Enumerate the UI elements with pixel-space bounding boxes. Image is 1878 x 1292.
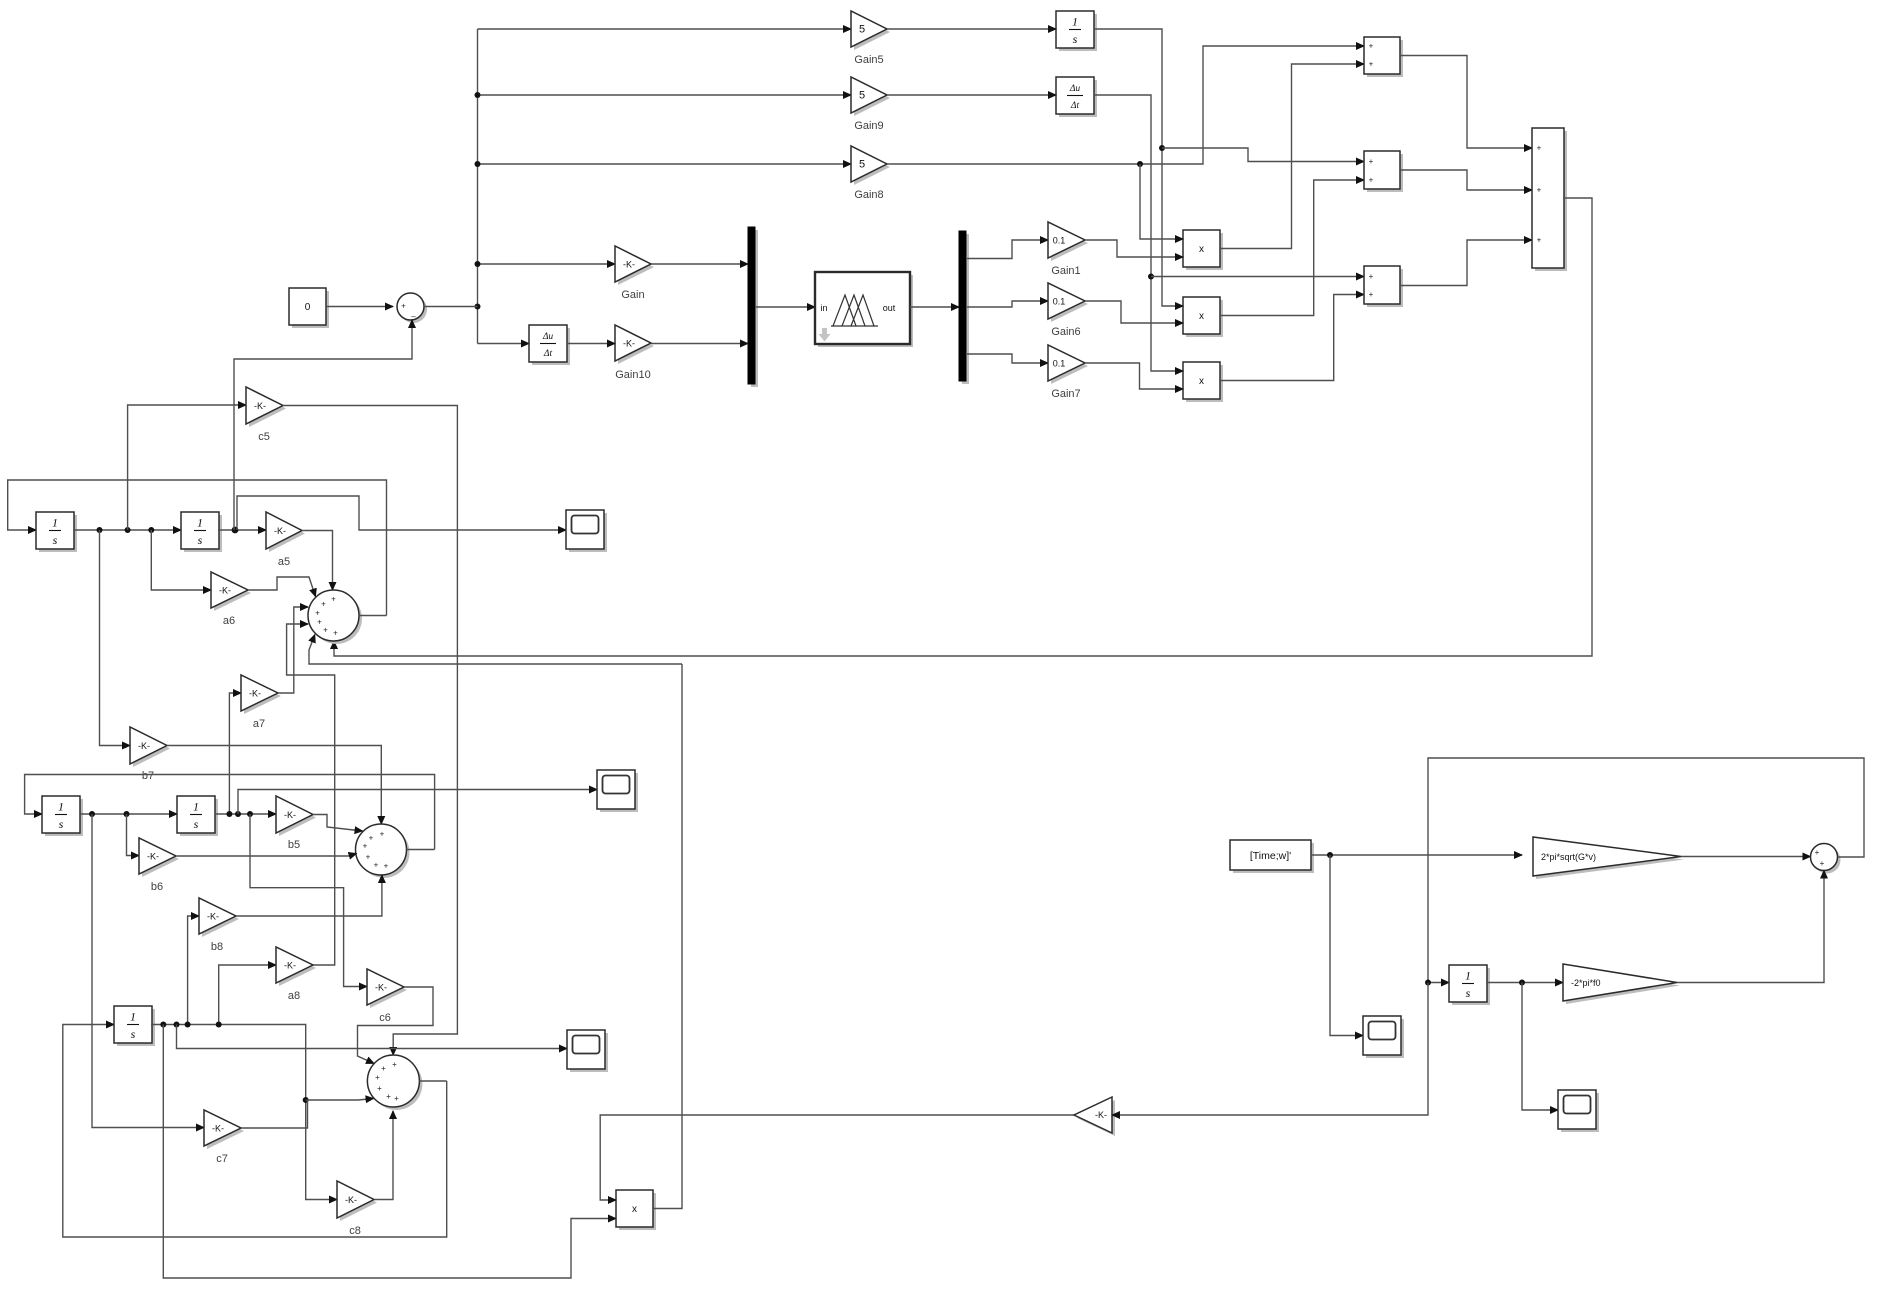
svg-text:+: + [1820, 859, 1825, 868]
gain Gain7 [1048, 345, 1088, 384]
svg-text:-K-: -K- [249, 689, 261, 699]
svg-text:+: + [1369, 272, 1374, 281]
node e-b8 [185, 1022, 191, 1028]
svg-text:+: + [1815, 848, 1820, 857]
wire product4 to sum-a [309, 635, 682, 664]
svg-text:+: + [1537, 236, 1542, 245]
derivative du/dt (pre Gain10) [529, 325, 570, 365]
constant block 0 [289, 288, 329, 328]
gain a6 [211, 572, 251, 611]
svg-text:+: + [331, 595, 336, 604]
svg-text:5: 5 [859, 159, 865, 171]
wire a8 to sum-a [287, 624, 335, 965]
wire c5 input riser [128, 405, 246, 530]
wire product2 to sum2 [1220, 180, 1364, 316]
node intB-out [232, 527, 239, 534]
svg-text:0.1: 0.1 [1053, 236, 1066, 246]
node a-b7 [97, 527, 103, 533]
svg-text:s: s [53, 533, 58, 547]
product block 1 [1183, 230, 1223, 270]
svg-text:+: + [392, 1060, 397, 1069]
svg-text:Gain8: Gain8 [854, 189, 883, 201]
svg-text:c6: c6 [379, 1012, 391, 1024]
gain Gain9 [851, 77, 890, 116]
gain c7 [204, 1110, 244, 1149]
gain 2*pi*sqrt(G*v) [1533, 837, 1684, 879]
wire e to product4-in2 [163, 1025, 616, 1279]
wire b-loop feedback [25, 775, 435, 850]
wire const0 to sum [326, 306, 393, 308]
gain Gain6 [1048, 283, 1088, 322]
wire intF to scope5 [1522, 983, 1558, 1111]
sum circle 5 [1811, 844, 1841, 874]
node gain8-branch [1137, 161, 1143, 167]
wire to Gain [478, 263, 616, 265]
wire sum4 output [424, 306, 478, 308]
wire to Gain8 [478, 163, 852, 165]
wire a-loop feedback [8, 480, 387, 616]
gain b7 [130, 727, 170, 767]
scope 1 [566, 510, 607, 552]
wire b5 to sum-b [313, 815, 363, 832]
node error-gain8 [475, 161, 481, 167]
svg-text:Gain: Gain [621, 289, 644, 301]
svg-text:-K-: -K- [212, 1124, 224, 1134]
wire e to sum-c sw [306, 1099, 374, 1101]
wire a5 to sum-a top [302, 531, 333, 591]
wire sum-b output [407, 849, 435, 851]
svg-text:out: out [883, 303, 896, 313]
svg-text:x: x [632, 1204, 637, 1215]
scope 5 [1558, 1090, 1599, 1132]
wire a6 to sum-a [248, 577, 316, 597]
node error-gain [475, 261, 481, 267]
svg-text:+: + [1537, 144, 1542, 153]
svg-text:0: 0 [305, 302, 311, 313]
fuzzy logic controller block [815, 272, 913, 347]
wire b7 to sum-b top [167, 746, 381, 825]
wire dudt to sum3 [1151, 276, 1364, 278]
svg-text:-K-: -K- [274, 526, 286, 536]
svg-text:+: + [377, 1084, 382, 1093]
wire intA to intB [74, 529, 181, 531]
svg-text:+: + [315, 609, 320, 618]
wire a7 riser [229, 693, 241, 814]
svg-text:x: x [1199, 311, 1204, 322]
gain Gain1 [1048, 222, 1088, 261]
svg-text:+: + [317, 618, 322, 627]
gain b8 [199, 898, 239, 937]
wire derivative2 to Gain10 [567, 343, 615, 345]
wire to Gain9 [478, 94, 852, 96]
integrator 1/s (top) [1056, 11, 1097, 51]
gain b6 [139, 838, 179, 877]
svg-text:+: + [1369, 290, 1374, 299]
svg-text:s: s [59, 817, 64, 831]
svg-text:-K-: -K- [284, 961, 296, 971]
wire gain8-branch to product1 [1140, 164, 1183, 239]
svg-text:a8: a8 [288, 990, 300, 1002]
svg-text:b8: b8 [211, 941, 223, 953]
svg-text:-K-: -K- [207, 912, 219, 922]
wire Gain10 to mux [651, 343, 748, 345]
svg-text:-K-: -K- [623, 260, 635, 270]
wire intB to a5 [218, 529, 266, 531]
wire intE to scope3 [177, 1025, 568, 1049]
gain -K- (feedback) [1074, 1097, 1115, 1136]
svg-text:-K-: -K- [284, 810, 296, 820]
svg-text:c8: c8 [349, 1225, 361, 1237]
wire sum1 to adder [1400, 56, 1532, 149]
svg-text:Gain5: Gain5 [854, 54, 883, 66]
scope 3 [567, 1030, 608, 1072]
gain a8 [276, 947, 316, 986]
svg-text:Δt: Δt [1070, 101, 1080, 111]
svg-text:+: + [1369, 42, 1374, 51]
wire K to product4-in1 [600, 1115, 1074, 1200]
gain Gain8 [851, 146, 890, 185]
wire adder feedback to sum-a [334, 198, 1592, 656]
wire a6 input riser [151, 530, 211, 590]
svg-text:+: + [1537, 186, 1542, 195]
sum circle A [308, 590, 362, 644]
wire Gain to mux [651, 263, 748, 265]
wire f0-gain to sum5 bottom [1677, 871, 1824, 983]
svg-text:b6: b6 [151, 881, 163, 893]
product block 3 [1183, 362, 1223, 402]
gain Gain [615, 246, 654, 285]
sum circle C [367, 1055, 422, 1110]
gain c6 [367, 969, 407, 1008]
integrator F (1/s) [1449, 965, 1490, 1005]
svg-text:5: 5 [859, 90, 865, 102]
wire sum3 to adder [1400, 240, 1532, 286]
svg-text:+: + [333, 629, 338, 638]
svg-text:+: + [363, 842, 368, 851]
wire intD to scope2 [238, 790, 597, 815]
wire b8 riser [188, 916, 199, 1025]
svg-text:-K-: -K- [1095, 1110, 1107, 1120]
node error-sum-out [475, 304, 481, 310]
svg-text:-K-: -K- [623, 339, 635, 349]
node error-gain9 [475, 92, 481, 98]
node b-a7 [226, 811, 232, 817]
product block 4 [616, 1190, 656, 1230]
svg-text:b5: b5 [288, 839, 300, 851]
svg-text:1: 1 [58, 800, 64, 814]
svg-text:c7: c7 [216, 1153, 228, 1165]
node a-c5 [125, 527, 131, 533]
svg-text:a7: a7 [253, 718, 265, 730]
wire mux to fuzzy [755, 306, 815, 308]
svg-text:+: + [394, 1094, 399, 1103]
svg-text:2*pi*sqrt(G*v): 2*pi*sqrt(G*v) [1541, 852, 1596, 862]
integrator C (1/s) [42, 796, 83, 836]
svg-text:a6: a6 [223, 615, 235, 627]
wire intB to scope1 [237, 496, 566, 530]
wire intD to c6 [250, 814, 367, 987]
svg-text:+: + [323, 626, 328, 635]
node f-out-branch [1519, 980, 1525, 986]
node b-c6 [247, 811, 253, 817]
sum block 2 [1364, 151, 1403, 192]
wire Gain8 to sum1 [887, 46, 1364, 164]
wire demux to Gain7 [967, 354, 1048, 363]
wire product3 to sum3 [1220, 295, 1364, 381]
svg-text:+: + [381, 1064, 386, 1073]
svg-text:x: x [1199, 244, 1204, 255]
gain Gain5 [851, 11, 890, 50]
svg-text:+: + [380, 830, 385, 839]
svg-text:+: + [366, 853, 371, 862]
svg-text:+: + [1369, 60, 1374, 69]
wire demux to Gain6 [967, 301, 1048, 307]
product block 2 [1183, 297, 1223, 337]
sum block 1 [1364, 37, 1403, 77]
wire intD to b5 [215, 813, 276, 815]
wire source to sqrt-gain [1311, 854, 1522, 856]
svg-text:-K-: -K- [138, 741, 150, 751]
svg-text:Gain1: Gain1 [1051, 265, 1080, 277]
sum block tall (3-input adder) [1532, 128, 1567, 271]
wire product1 to sum1 [1220, 64, 1364, 249]
svg-text:Gain6: Gain6 [1051, 326, 1080, 338]
integrator A (1/s) [36, 512, 77, 552]
wire b8 to sum-b bottom [236, 875, 382, 916]
svg-text:s: s [1073, 32, 1078, 46]
svg-text:+: + [384, 862, 389, 871]
wire c-loop feedback [63, 1025, 447, 1238]
svg-text:-K-: -K- [254, 401, 266, 411]
demux block [959, 231, 969, 384]
node b-scope [235, 811, 241, 817]
wire a7 to sum-a [278, 607, 308, 693]
node e-scope3 [174, 1022, 180, 1028]
gain -2*pi*f0 [1563, 964, 1680, 1004]
svg-text:Gain10: Gain10 [615, 369, 650, 381]
svg-text:+: + [386, 1092, 391, 1101]
integrator D (1/s) [177, 796, 218, 836]
sum block 3 [1364, 266, 1403, 307]
wire intC to intD [80, 813, 177, 815]
svg-text:-2*pi*f0: -2*pi*f0 [1571, 978, 1601, 988]
wire Gain1 to product1 [1085, 240, 1183, 257]
wire intF to f0-gain [1486, 982, 1563, 984]
svg-text:_: _ [410, 309, 416, 318]
svg-text:1: 1 [52, 516, 58, 530]
wire sum5 loop to integrator F [1428, 758, 1864, 983]
svg-text:0.1: 0.1 [1053, 297, 1066, 307]
node b-c7 [89, 811, 95, 817]
node int-top-branch [1159, 145, 1165, 151]
wire c6 to sum-c [358, 987, 434, 1064]
wire c5 output to c-sum [283, 406, 457, 1056]
svg-text:+: + [374, 861, 379, 870]
wire to Gain5 [478, 28, 852, 30]
svg-text:-K-: -K- [345, 1195, 357, 1205]
svg-text:s: s [1466, 986, 1471, 1000]
wire Gain9 to derivative [887, 94, 1056, 96]
node source-branch [1327, 852, 1333, 858]
svg-text:Gain7: Gain7 [1051, 388, 1080, 400]
svg-text:1: 1 [193, 800, 199, 814]
svg-text:in: in [820, 303, 827, 313]
wire demux to Gain1 [967, 240, 1048, 259]
svg-text:Δu: Δu [1069, 84, 1081, 94]
node f-in-branch [1425, 980, 1431, 986]
integrator B (1/s) [181, 512, 222, 552]
node e-a8 [216, 1022, 222, 1028]
integrator E (1/s) [114, 1006, 155, 1046]
derivative du/dt (top) [1056, 77, 1097, 117]
wire to Derivative2 [478, 343, 530, 345]
svg-text:s: s [131, 1027, 136, 1041]
sum circle B [356, 824, 410, 878]
gain a7 [241, 675, 281, 714]
gain Gain10 [615, 325, 654, 364]
svg-text:5: 5 [859, 24, 865, 36]
source block [Time;w]' [1230, 840, 1314, 873]
scope 4 [1363, 1016, 1404, 1058]
svg-text:Δt: Δt [543, 349, 553, 359]
wire c8 to sum-c bottom [374, 1111, 393, 1200]
svg-text:+: + [375, 1073, 380, 1082]
svg-text:1: 1 [197, 516, 203, 530]
node e-p4 [160, 1022, 166, 1028]
wire b6 to sum-b [176, 854, 357, 857]
svg-text:b7: b7 [142, 770, 154, 782]
svg-text:1: 1 [1072, 15, 1078, 29]
node b-b6 [124, 811, 130, 817]
svg-text:0.1: 0.1 [1053, 359, 1066, 369]
wire source to scope4 [1330, 855, 1363, 1036]
wire b6 riser [127, 814, 140, 856]
svg-text:-K-: -K- [219, 586, 231, 596]
svg-text:+: + [401, 302, 406, 311]
svg-text:s: s [194, 817, 199, 831]
svg-text:+: + [321, 600, 326, 609]
wire Gain6 to product2 [1085, 301, 1183, 323]
wire intE out [151, 1025, 337, 1200]
gain c8 [337, 1181, 377, 1221]
wire sum-a output [359, 615, 387, 617]
svg-text:-K-: -K- [375, 983, 387, 993]
svg-text:[Time;w]': [Time;w]' [1250, 850, 1291, 862]
wire product4 output up [653, 664, 682, 1209]
wire c7 output [241, 1101, 308, 1128]
svg-text:1: 1 [1465, 969, 1471, 983]
wire integrator-top down [1094, 29, 1183, 306]
svg-text:+: + [369, 834, 374, 843]
wire Gain7 to product3 [1085, 363, 1183, 389]
wire a8 riser [219, 965, 276, 1025]
wire c7 input [92, 814, 204, 1128]
gain c5 [246, 387, 286, 427]
node dudt-branch [1148, 274, 1154, 280]
mux block [748, 227, 758, 387]
wire sqrt-gain to sum5 [1681, 856, 1811, 858]
scope 2 [597, 770, 638, 812]
wire feedback to error sum [234, 320, 412, 530]
svg-text:c5: c5 [258, 431, 270, 443]
svg-text:Gain9: Gain9 [854, 120, 883, 132]
gain a5 [266, 512, 305, 552]
svg-text:Δu: Δu [542, 332, 554, 342]
wire b7 riser [100, 530, 131, 746]
wire sum-c output [419, 1080, 446, 1082]
svg-text:1: 1 [130, 1010, 136, 1024]
wire Gain5 to integrator [887, 28, 1056, 30]
svg-text:-K-: -K- [147, 852, 159, 862]
wire int-top to sum2 [1162, 148, 1364, 162]
svg-text:+: + [1369, 157, 1374, 166]
node a-a6 [148, 527, 154, 533]
node e-sw [303, 1097, 309, 1103]
sum junction (error) [397, 293, 427, 323]
wire derivative-top down [1094, 95, 1183, 371]
wire error-signal vertical bus [477, 29, 479, 344]
gain b5 [276, 796, 316, 836]
svg-text:a5: a5 [278, 556, 290, 568]
svg-text:x: x [1199, 376, 1204, 387]
svg-text:+: + [1369, 176, 1374, 185]
wire branch to -K- [1112, 983, 1428, 1116]
wire sum2 to adder [1400, 170, 1532, 190]
svg-text:s: s [198, 533, 203, 547]
wire fuzzy to demux [910, 306, 959, 308]
